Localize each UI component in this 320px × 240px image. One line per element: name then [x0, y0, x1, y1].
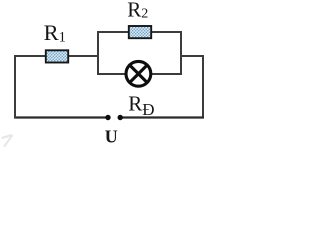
- resistor R1: [46, 50, 68, 62]
- watermark stroke: [3, 135, 13, 146]
- resistor R2: [129, 26, 151, 38]
- wire: top branch to R2: [97, 31, 129, 33]
- terminal dot right: [118, 115, 123, 120]
- wire: right junction vertical: [180, 31, 182, 75]
- wire: left junction vertical: [97, 31, 99, 75]
- wire: R1 to left junction: [68, 55, 99, 57]
- svg-text:U: U: [105, 127, 118, 147]
- wire: bottom right segment: [120, 116, 204, 118]
- wire: bottom branch to lamp: [97, 73, 126, 75]
- wire: R2 to right junction: [151, 31, 182, 33]
- wire: left vertical: [14, 55, 16, 119]
- wire: right vertical: [202, 55, 204, 118]
- wire: lamp to right junction: [151, 73, 182, 75]
- lamp RĐ: [126, 61, 151, 86]
- terminal dot left: [105, 115, 110, 120]
- wire: left lead to R1: [14, 55, 46, 57]
- wire: bottom left segment: [14, 116, 108, 118]
- wire: right tap horizontal: [181, 55, 204, 57]
